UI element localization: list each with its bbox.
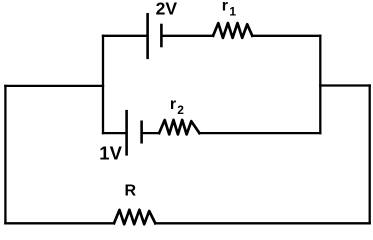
- resistor r2: [159, 120, 199, 134]
- svg-text:r: r: [170, 96, 176, 113]
- wire top branch right segment: [252, 35, 320, 37]
- wire inner-left vertical: [102, 36, 104, 133]
- wire outer-right vertical: [369, 86, 371, 224]
- svg-text:1V: 1V: [99, 142, 122, 163]
- wire middle branch left segment: [103, 132, 126, 134]
- wire top branch middle segment: [162, 35, 213, 37]
- value label r2: [170, 96, 184, 117]
- wire outer-left vertical: [4, 86, 6, 223]
- value label r1: [222, 0, 237, 19]
- wire bottom right segment: [155, 222, 369, 224]
- svg-text:r: r: [222, 0, 228, 15]
- wire middle branch middle segment: [143, 132, 160, 134]
- battery V2 1V: [127, 111, 142, 154]
- svg-text:1: 1: [229, 5, 236, 19]
- svg-text:2V: 2V: [156, 0, 178, 19]
- svg-text:2: 2: [177, 103, 184, 117]
- resistor r1: [213, 23, 252, 38]
- wire bottom left segment: [5, 222, 114, 224]
- wire middle branch right segment: [199, 132, 320, 134]
- wire left connector: [5, 85, 103, 87]
- wire inner-right vertical: [319, 36, 321, 133]
- resistor R: [114, 210, 155, 224]
- wire top branch left segment: [103, 35, 147, 37]
- wire right connector: [320, 84, 369, 86]
- battery V1 2V: [148, 14, 162, 58]
- svg-text:R: R: [125, 183, 137, 200]
